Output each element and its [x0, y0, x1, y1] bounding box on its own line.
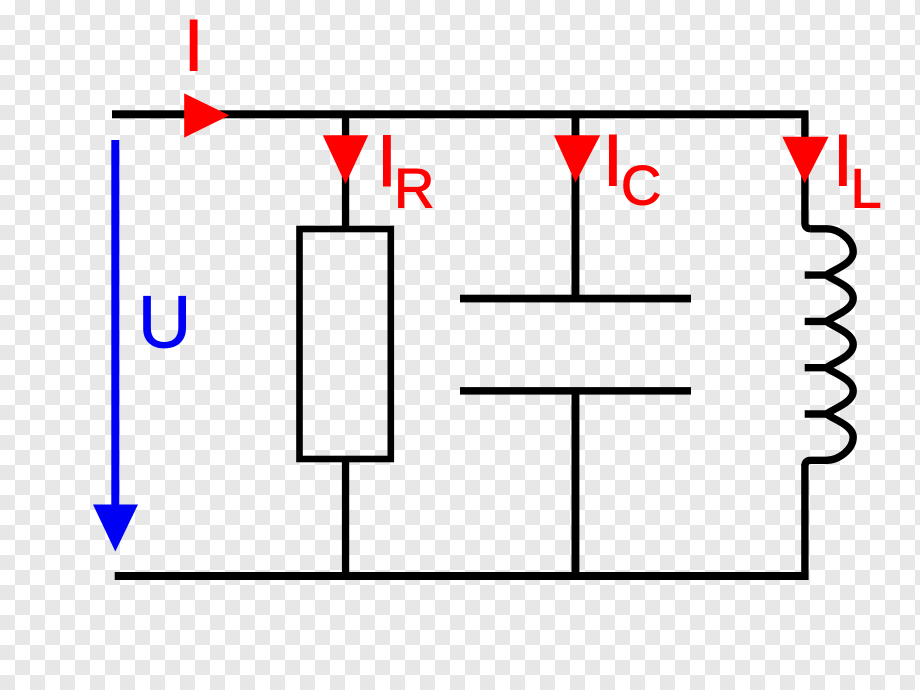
- branch current arrow IL: [782, 137, 828, 184]
- svg-text:R: R: [394, 156, 434, 219]
- svg-text:U: U: [138, 281, 191, 364]
- branch current arrow IC: [554, 135, 600, 182]
- svg-text:L: L: [851, 156, 882, 219]
- wire inductor branch lower segment: [801, 464, 808, 580]
- wire bottom horizontal bus: [115, 572, 809, 580]
- branch current arrow IR: [323, 135, 368, 184]
- wire capacitor branch upper segment: [572, 114, 580, 296]
- capacitor C bottom plate: [460, 387, 691, 395]
- resistor R (rectangle): [300, 229, 391, 459]
- voltage arrow U (blue, pointing down at left): [93, 140, 138, 552]
- svg-text:C: C: [621, 154, 661, 217]
- capacitor C top plate: [460, 295, 691, 303]
- wire resistor branch upper segment: [342, 114, 349, 229]
- wire top horizontal bus: [112, 110, 809, 118]
- current arrow I (red, pointing right on top wire): [184, 93, 229, 137]
- svg-text:I: I: [184, 6, 204, 87]
- wire inductor branch upper segment: [805, 112, 811, 229]
- wire resistor branch lower segment: [342, 459, 349, 576]
- wire capacitor branch lower segment: [572, 394, 580, 576]
- inductor L (coil, 5 turns): [805, 229, 854, 466]
